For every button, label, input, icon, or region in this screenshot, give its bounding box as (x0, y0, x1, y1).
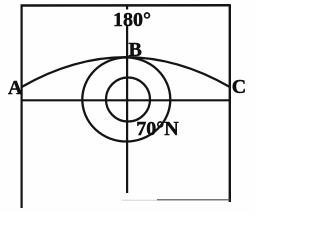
svg-text:180°: 180° (113, 9, 151, 31)
svg-text:B: B (129, 39, 142, 61)
svg-text:A: A (8, 77, 23, 99)
svg-text:70°N: 70°N (136, 118, 179, 140)
svg-text:C: C (232, 76, 246, 98)
